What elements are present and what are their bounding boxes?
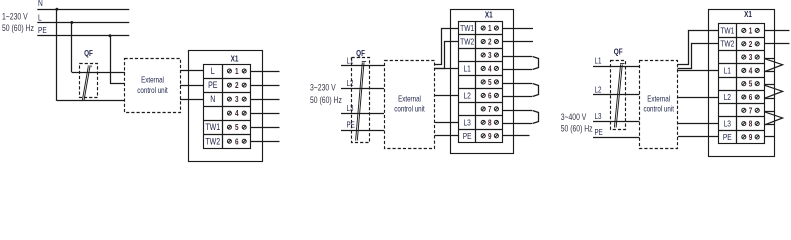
svg-text:8: 8 — [749, 119, 753, 129]
svg-text:QF: QF — [614, 47, 623, 57]
svg-text:X1: X1 — [744, 9, 752, 19]
breaker QF blade P2 — [356, 62, 367, 141]
svg-text:9: 9 — [488, 131, 492, 141]
svg-text:8: 8 — [488, 118, 492, 128]
wire L3 QF to control unit P2 — [352, 113, 384, 115]
terminal block X1 body P2 — [459, 22, 503, 143]
svg-text:L3: L3 — [724, 119, 731, 129]
terminal numbers 1-9 P3 — [749, 26, 753, 142]
motor winding U P3 — [764, 58, 783, 71]
wire L3 bus P3 — [593, 121, 611, 123]
terminal block X1 body P3 — [719, 24, 765, 144]
svg-text:L3: L3 — [347, 104, 354, 113]
svg-text:X1: X1 — [231, 53, 239, 63]
breaker QF box P3 — [611, 61, 626, 130]
svg-text:L: L — [211, 66, 215, 76]
svg-text:L1: L1 — [595, 57, 602, 66]
wire TW2 to motor P2 — [503, 41, 533, 43]
motor winding V P2 — [533, 84, 539, 97]
wires X1 3-9 to star point P3 — [764, 59, 775, 137]
svg-text:1~230 V: 1~230 V — [2, 11, 28, 21]
svg-text:TW1: TW1 — [205, 122, 220, 132]
breaker QF blade P3 — [614, 64, 624, 128]
junction L — [70, 21, 73, 24]
wire PE bus P3 — [593, 137, 611, 139]
wire TW1 to motor P3 — [764, 30, 790, 32]
wire L3 bus P2 — [341, 113, 352, 115]
svg-text:TW2: TW2 — [205, 136, 220, 146]
terminal labels TW1 TW2 L1 L2 L3 PE P3 — [720, 26, 734, 143]
svg-text:6: 6 — [235, 137, 239, 147]
wire control unit to X1 terminal 3 (N) — [180, 99, 204, 101]
svg-text:TW1: TW1 — [720, 26, 734, 36]
svg-text:L: L — [38, 13, 42, 23]
wire L to control unit — [72, 72, 125, 74]
svg-text:1: 1 — [488, 23, 492, 33]
fan housing box P2 — [451, 10, 514, 154]
terminal block X1 label column divider P3 — [736, 24, 738, 144]
svg-text:4: 4 — [488, 64, 492, 74]
terminal block X1 row dividers P1 — [204, 79, 251, 135]
breaker QF box — [80, 64, 98, 98]
svg-text:1: 1 — [235, 66, 239, 76]
svg-text:9: 9 — [749, 132, 753, 142]
motor winding U P2 — [533, 57, 539, 70]
svg-text:PE: PE — [38, 25, 47, 35]
terminal block X1 row dividers P2 — [459, 35, 503, 130]
wire L3 control unit to X1 P2 — [435, 122, 459, 124]
svg-text:PE: PE — [595, 128, 604, 137]
svg-text:N: N — [210, 94, 215, 104]
wire L3 QF to control unit P3 — [611, 121, 640, 123]
svg-text:PE: PE — [208, 80, 218, 90]
svg-text:L3: L3 — [595, 112, 602, 121]
svg-text:L2: L2 — [347, 79, 354, 88]
svg-text:6: 6 — [749, 92, 753, 102]
wire TW2 to motor P3 — [764, 43, 790, 45]
fan housing box P3 — [709, 10, 775, 157]
wire TW1 to motor P2 — [503, 28, 533, 30]
wire PE to motor P2 — [503, 135, 530, 137]
svg-text:External: External — [141, 76, 164, 85]
svg-text:3~400 V: 3~400 V — [561, 112, 587, 122]
external control unit box P3 — [640, 61, 678, 149]
wire L2 control unit to X1 P2 — [435, 95, 459, 97]
fan housing box P1 — [189, 51, 263, 162]
wire X1 4 to winding P2 — [503, 69, 532, 71]
svg-text:3: 3 — [749, 52, 753, 62]
svg-text:50 (60) Hz: 50 (60) Hz — [2, 23, 34, 33]
terminal block X1 label column divider P1 — [222, 64, 224, 148]
wire PE drop — [110, 36, 112, 84]
svg-text:6: 6 — [488, 91, 492, 101]
svg-text:5: 5 — [488, 77, 492, 87]
svg-text:L1: L1 — [724, 65, 731, 75]
svg-text:5: 5 — [749, 79, 753, 89]
svg-text:3~230 V: 3~230 V — [310, 82, 336, 92]
svg-text:1: 1 — [749, 26, 753, 36]
svg-text:7: 7 — [749, 106, 753, 116]
wire X1 5 to winding P2 — [503, 83, 532, 85]
wire N bus — [37, 9, 129, 11]
svg-text:L2: L2 — [463, 91, 470, 101]
svg-text:X1: X1 — [485, 9, 493, 19]
wire L1 QF to control unit P3 — [611, 66, 640, 68]
wire TW2 control unit to X1 P3 — [678, 44, 719, 69]
motor winding V P3 — [764, 85, 783, 98]
terminal numbers 1-9 P2 — [488, 23, 492, 141]
wire L1 bus P3 — [593, 66, 611, 68]
svg-text:3: 3 — [488, 50, 492, 60]
svg-text:7: 7 — [488, 104, 492, 114]
svg-text:L3: L3 — [463, 117, 470, 127]
wire N to control unit — [57, 100, 125, 102]
svg-text:control unit: control unit — [137, 86, 167, 95]
wire PE QF to control unit P2 — [352, 130, 384, 132]
wire L3 control unit to X1 P3 — [678, 123, 718, 125]
wire L drop — [71, 23, 73, 73]
svg-text:4: 4 — [749, 66, 753, 76]
svg-text:50 (60) Hz: 50 (60) Hz — [561, 123, 593, 133]
wire L2 QF to control unit P2 — [352, 88, 384, 90]
svg-text:TW2: TW2 — [720, 39, 734, 49]
terminal numbers 1-6 P1 — [235, 66, 239, 146]
terminal screws P2 — [481, 26, 498, 138]
svg-text:2: 2 — [749, 39, 753, 49]
svg-text:External: External — [398, 95, 421, 104]
wire X1 7 to winding P2 — [503, 110, 532, 112]
wire X1 8 to winding P2 — [503, 123, 532, 125]
wire PE control unit to X1 P3 — [678, 136, 718, 138]
svg-text:L2: L2 — [595, 86, 602, 95]
wire L2 bus P3 — [593, 94, 611, 96]
wire PE to control unit — [110, 83, 125, 85]
wire L2 control unit to X1 P3 — [678, 97, 718, 99]
wire PE bus P2 — [341, 130, 352, 132]
svg-text:PE: PE — [463, 131, 472, 141]
breaker QF box P2 — [352, 58, 370, 143]
terminal screws P3 — [742, 28, 760, 139]
wire L1 control unit to X1 P3 — [678, 70, 718, 72]
svg-text:External: External — [647, 95, 670, 104]
wire control unit to X1 terminal 1 (L) — [180, 70, 204, 72]
svg-text:QF: QF — [84, 48, 93, 58]
svg-text:L1: L1 — [463, 64, 470, 74]
motor winding W P3 — [764, 112, 783, 125]
svg-text:3: 3 — [235, 94, 239, 104]
terminal block X1 row dividers P3 — [718, 38, 764, 131]
svg-text:4: 4 — [235, 108, 239, 118]
terminal block X1 label column divider P2 — [475, 21, 477, 142]
svg-text:2: 2 — [488, 37, 492, 47]
wire X1 3 to winding P2 — [503, 56, 532, 58]
wire X1 6 to winding P2 — [503, 96, 532, 98]
external control unit box P1 — [125, 59, 181, 113]
svg-text:TW2: TW2 — [460, 37, 474, 47]
junction PE — [109, 34, 112, 37]
wire TW1 control unit to X1 P3 — [678, 31, 719, 65]
breaker QF blade — [82, 66, 92, 100]
wire L1 bus P2 — [341, 65, 352, 67]
svg-text:N: N — [38, 0, 43, 8]
wire TW1 control unit to X1 P2 — [435, 29, 459, 65]
svg-text:5: 5 — [235, 122, 239, 132]
svg-text:50 (60) Hz: 50 (60) Hz — [310, 95, 342, 105]
svg-text:TW1: TW1 — [460, 23, 474, 33]
wire L1 control unit to X1 P2 — [435, 68, 459, 70]
wires X1 to motor P1 — [251, 72, 280, 142]
svg-text:2: 2 — [235, 80, 239, 90]
terminal screws P1 — [227, 69, 246, 143]
wire L1 QF to control unit P2 — [352, 65, 384, 67]
junction N — [55, 8, 58, 11]
svg-text:QF: QF — [356, 48, 365, 58]
svg-text:L2: L2 — [724, 92, 731, 102]
wire PE bus — [37, 35, 129, 37]
svg-text:PE: PE — [347, 121, 356, 130]
wire TW2 control unit to X1 P2 — [435, 42, 459, 69]
svg-text:control unit: control unit — [643, 105, 673, 114]
external control unit box P2 — [385, 61, 435, 149]
wire L bus — [37, 22, 129, 24]
wire N drop — [56, 9, 58, 101]
terminal block X1 body P1 — [204, 65, 251, 149]
wire PE control unit to X1 P2 — [435, 135, 459, 137]
wire L2 bus P2 — [341, 88, 352, 90]
terminal labels L PE N TW1 TW2 P1 — [205, 66, 220, 146]
svg-text:control unit: control unit — [394, 105, 424, 114]
terminal labels TW1 TW2 L1 L2 L3 PE P2 — [460, 23, 474, 141]
wire PE QF to control unit P3 — [611, 137, 640, 139]
svg-text:PE: PE — [723, 132, 732, 142]
motor winding W P2 — [533, 111, 539, 124]
wire control unit to X1 terminal 2 (PE) — [180, 85, 204, 87]
wire L2 QF to control unit P3 — [611, 94, 640, 96]
